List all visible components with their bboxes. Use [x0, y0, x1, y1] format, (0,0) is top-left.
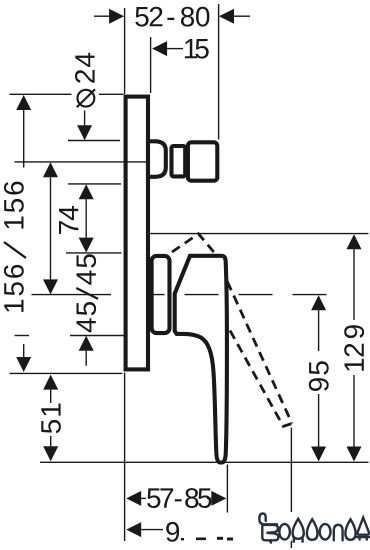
wall ext line x=218.6 [218, 4, 220, 140]
logo letter y triangle with base [357, 518, 369, 535]
handle boss [152, 256, 170, 333]
watermark logo [259, 514, 369, 543]
logo letter o [320, 524, 331, 539]
sleeve centerline y=161.9 [15, 161, 161, 163]
watermark backdrop [243, 512, 370, 541]
dashed lever lowered side 1 [227, 282, 292, 424]
dim 156/156 [4, 95, 31, 372]
dim 95 [309, 295, 329, 461]
dim 52-80 [94, 7, 250, 27]
logo letter B swan [259, 514, 277, 525]
ext line y=294.6 pivot left [32, 294, 112, 296]
ext line plate back x=150.6 [150, 37, 152, 93]
ext line lever tip x=227.4 [226, 465, 228, 513]
logo letter d droplet with feet [293, 519, 304, 539]
ext line above plate front x=124.6 [124, 8, 126, 94]
spacer ring [172, 146, 186, 176]
logo letter o [279, 524, 290, 539]
ext line y=94.3 plate top [10, 93, 72, 95]
dim 92-120 partially hidden [126, 522, 233, 542]
dim 74 [59, 184, 94, 252]
ext line y=335.5 boss bottom [15, 335, 30, 337]
ext line y=462.3 lever tip level [40, 461, 369, 463]
ext line y=233.6 dashed apex [149, 233, 369, 235]
ext line dashed tip x=291.4 [290, 428, 292, 513]
logo letter o droplet [307, 519, 318, 540]
dim 51 [41, 375, 61, 462]
dim 57-85 [126, 488, 226, 508]
dim 129 [344, 234, 364, 461]
sleeve [148, 141, 166, 177]
dim diameter 24 [75, 53, 95, 140]
dim sleeve center to pivot x=50.5 [43, 162, 58, 294]
dim 15 [152, 39, 209, 59]
cartridge nut [188, 142, 217, 180]
logo letter e droplet [345, 519, 355, 540]
ext line y=140.5 sleeve top [68, 140, 120, 142]
dim 45/45 [76, 254, 98, 365]
lever handle [175, 256, 227, 463]
dashed lever raised outline [172, 234, 215, 254]
ext line y=183.9 nut bottom [68, 183, 121, 185]
escutcheon plate [126, 97, 148, 370]
ext line y=373.4 plate bottom [10, 372, 123, 374]
ext line below plate front x=124.6 [124, 373, 126, 542]
dashed lever lowered side 2 with tip cap [230, 331, 292, 427]
ext line y=252.9 boss top [66, 252, 122, 254]
logo letter l arch [334, 525, 343, 541]
pivot centerline dash-dot [149, 294, 331, 296]
